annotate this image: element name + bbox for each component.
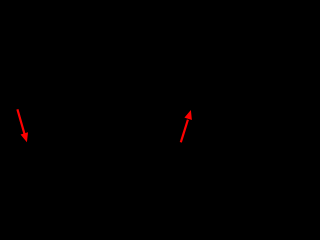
arrow right (red annotation arrow, pointing up-right) [181, 110, 192, 142]
arrow left (red annotation arrow, pointing down-right) [17, 109, 28, 142]
